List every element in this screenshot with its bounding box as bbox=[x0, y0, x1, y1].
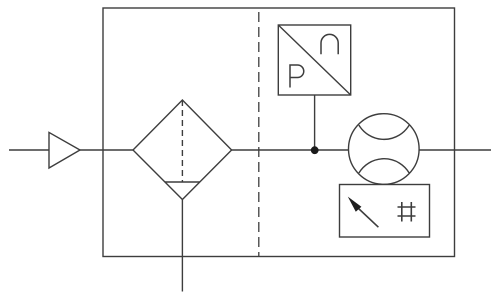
junction node bbox=[311, 146, 319, 154]
label P bbox=[290, 65, 304, 88]
control/readout unit (box) bbox=[340, 185, 430, 238]
enclosure box (unit assembly frame) bbox=[103, 8, 455, 257]
wire: main flow line bbox=[9, 149, 491, 151]
flow direction triangle bbox=[49, 132, 80, 168]
flow meter FM1 (circle) bbox=[349, 114, 420, 185]
dashed partition line bbox=[258, 8, 260, 257]
wire: transducer signal line bbox=[314, 95, 316, 150]
filter F1 (diamond) bbox=[133, 100, 232, 200]
electrical arch symbol bbox=[321, 34, 338, 54]
grid/display glyph bbox=[398, 202, 416, 222]
pressure transducer U1 (P-to-electric square) bbox=[278, 25, 350, 95]
adjustment arrow bbox=[348, 197, 379, 228]
wire: drain line bbox=[181, 200, 183, 292]
